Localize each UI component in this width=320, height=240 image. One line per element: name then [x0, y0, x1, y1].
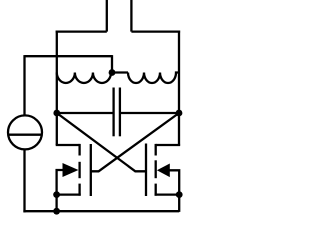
transistor M1 source lead: [57, 193, 81, 195]
transistor M2 body lead: [169, 170, 179, 212]
current source I1 circle: [8, 115, 42, 149]
wire capacitor left lead: [57, 112, 114, 114]
transistor M2 channel top segment: [155, 144, 157, 156]
wire cross-coupling diagonal A (left tank to right gate): [57, 113, 146, 171]
node tail rail junction dot: [53, 208, 60, 215]
node M1 source junction dot: [53, 191, 60, 198]
node right tank junction dot: [176, 110, 183, 117]
node M2 source junction dot: [176, 191, 183, 198]
transistor M2 channel bottom segment: [155, 184, 157, 196]
transistor M2 source lead: [155, 193, 180, 195]
wire cross-coupling diagonal B (right tank to left gate): [91, 113, 179, 171]
wire right tank rail: [178, 31, 180, 146]
inductor L left half (3 arcs): [57, 73, 111, 84]
capacitor C right plate: [119, 88, 121, 137]
wire left tank rail: [56, 31, 58, 146]
transistor M1 drain lead: [56, 144, 80, 146]
transistor M1 body arrow: [63, 163, 79, 177]
wire capacitor right lead: [120, 112, 179, 114]
wire top-left vertical lead exiting image top: [106, 0, 108, 32]
wire current source bottom lead: [23, 149, 25, 212]
transistor M2 channel mid segment: [155, 160, 157, 178]
transistor M1 body lead: [57, 170, 64, 212]
wire center-tap riser: [111, 55, 113, 72]
transistor M2 body arrow: [157, 164, 170, 178]
wire center-tap feed horizontal: [25, 55, 113, 57]
wire top-right vertical lead exiting image top: [130, 0, 132, 32]
capacitor C left plate: [112, 88, 114, 137]
transistor M1 channel bottom segment: [78, 184, 80, 196]
wire top-right horizontal: [131, 30, 180, 32]
node left tank junction dot: [53, 110, 60, 117]
transistor M2 gate bar: [145, 144, 147, 197]
wire bottom tail rail: [23, 210, 179, 212]
wire current source top lead: [23, 55, 25, 116]
node center tap junction dot: [109, 69, 116, 76]
transistor M1 channel mid segment: [78, 162, 80, 178]
wire center tap to right coil half: [111, 71, 128, 73]
inductor L right half (3 arcs): [128, 73, 179, 84]
transistor M1 gate bar: [90, 144, 92, 196]
transistor M2 drain lead: [156, 144, 180, 146]
wire top-left horizontal: [56, 30, 107, 32]
transistor M1 channel top segment: [78, 144, 80, 156]
current source I1 bar: [8, 134, 42, 136]
